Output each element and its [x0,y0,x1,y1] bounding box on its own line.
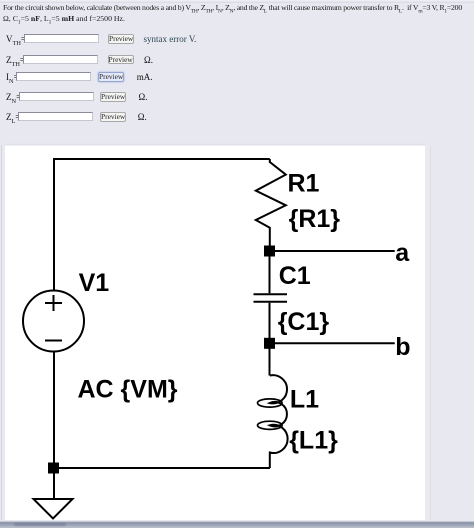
wire left (top corner to V1 plus terminal) [53,158,55,291]
answer row 5: ZL [0,111,474,123]
svg-text:b: b [395,333,410,361]
ground lead [53,468,55,499]
top page edge strip [0,0,474,3]
wire top (V1 to R1) [54,158,270,160]
node a junction [264,246,275,257]
wire C1 bottom lead [269,303,271,343]
white schematic background [5,146,425,520]
answer row 1: VTH [0,33,474,45]
svg-text:C1: C1 [279,262,311,290]
problem statement paragraph [3,3,474,23]
svg-text:{R1}: {R1} [289,205,341,233]
right scrollbar strip beside circuit frame [425,145,430,520]
resistor R1 [256,159,286,246]
ground symbol triangle [34,499,73,519]
wire node a to label a [270,250,395,252]
svg-text:R1: R1 [288,169,320,197]
svg-text:{C1}: {C1} [278,308,330,336]
bottom window band [0,521,474,528]
wire node b to label b [270,342,395,344]
circuit schematic canvas [5,141,425,520]
svg-text:L1: L1 [290,385,319,413]
answer row 3: IN (focused button) [0,71,474,83]
wire bottom (node to L1) [54,467,270,469]
svg-text:{L1}: {L1} [289,427,338,455]
V1 minus sign [45,340,62,342]
wire C1 top lead [269,251,271,293]
inductor L1 loop lens 2 [258,421,283,429]
capacitor C1 [254,294,288,302]
inductor L1 loop lens 1 [258,399,283,407]
V1 plus sign [45,295,62,311]
svg-text:a: a [395,239,410,267]
answer row 2: ZTH [0,54,474,66]
svg-text:V1: V1 [79,269,110,297]
inductor L1 [270,375,288,468]
node junction bottom-left [48,463,59,474]
svg-text:AC {VM}: AC {VM} [78,376,178,404]
wire left below V1 to bottom node [53,352,55,469]
source V1 circle [23,291,84,352]
wire L1 top lead [269,343,271,375]
answer row 4: ZN [0,91,474,103]
node b junction [264,338,275,349]
faint left frame line [1,145,2,520]
